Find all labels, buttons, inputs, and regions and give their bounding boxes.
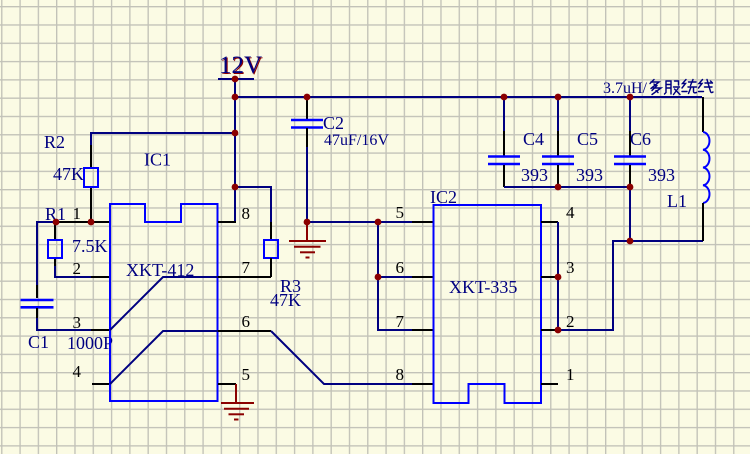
wire C1 to pin 3 [37, 318, 92, 330]
svg-text:2: 2 [73, 259, 82, 278]
wire R2 branch horizontal [91, 133, 235, 146]
op-amp IC1 chip outline XKT-412 [110, 204, 218, 401]
IC2 pin 1 stub [541, 383, 558, 385]
wire R1 bottom to pin 2 [55, 266, 92, 277]
12V label [219, 52, 263, 80]
char 绕 [682, 80, 687, 92]
capacitor C1 top lead [36, 285, 38, 298]
svg-text:393: 393 [576, 165, 603, 185]
svg-text:6: 6 [242, 312, 251, 331]
resistor R1 leads [54, 222, 56, 268]
wire IC2 right tie (4-3-2) [557, 222, 559, 330]
svg-text:47K: 47K [53, 164, 84, 184]
IC2 pin 4 stub [541, 221, 558, 223]
capacitor C6 [614, 157, 646, 165]
wire pin6 tie [378, 276, 413, 278]
wire 12V drop to bus [234, 79, 236, 222]
wire cap bottom rail [504, 186, 630, 188]
svg-text:47uF/16V: 47uF/16V [324, 132, 389, 149]
wire diag pin4 to pin6 row [110, 331, 218, 384]
wire ground node to IC2 pin5 [307, 221, 413, 223]
resistor R1 [48, 240, 62, 258]
IC2 pin 2 stub [541, 329, 558, 331]
ground under IC1 pin5 [221, 384, 254, 420]
svg-text:12V: 12V [219, 52, 262, 79]
IC2 pin 8 stub [412, 383, 434, 385]
inductor L1 top lead [702, 97, 704, 132]
capacitor C4 [488, 157, 520, 165]
svg-text:5: 5 [396, 203, 405, 222]
resistor R3 top lead [270, 222, 272, 240]
svg-text:C6: C6 [630, 129, 651, 149]
svg-text:IC2: IC2 [430, 187, 457, 207]
svg-text:C5: C5 [577, 129, 598, 149]
capacitor C2 [291, 120, 323, 128]
capacitor C1 [21, 300, 54, 307]
svg-text:C1: C1 [28, 332, 49, 352]
pin 3 stub [91, 329, 110, 331]
wire diag pin6 to IC2 pin8 [271, 331, 413, 384]
svg-text:47K: 47K [270, 290, 301, 310]
IC2 pin 6 stub [412, 276, 434, 278]
pin 4 stub [92, 383, 110, 385]
resistor R2 leads [90, 145, 92, 222]
svg-text:2: 2 [566, 312, 575, 331]
wire pin2 to L1 bottom [558, 241, 703, 330]
ground under C2 [289, 224, 326, 258]
inductor L1 [703, 132, 709, 203]
resistor R3 [264, 240, 278, 258]
capacitor C5 lead top [557, 97, 559, 132]
svg-text:1: 1 [73, 204, 82, 223]
capacitor C2 top lead [306, 97, 308, 119]
svg-text:8: 8 [396, 365, 405, 384]
IC2 chip outline XKT-335 [434, 205, 542, 403]
pin 8 stub (IC1) [218, 221, 236, 223]
capacitor C6 lead top [629, 97, 631, 132]
svg-text:3.7uH/: 3.7uH/ [603, 80, 648, 97]
wire R3 branch [235, 187, 271, 223]
svg-text:C2: C2 [323, 113, 344, 133]
wire pin1 row [37, 221, 56, 223]
wire diag pin3 to pin7 row [110, 277, 218, 330]
svg-text:XKT-335: XKT-335 [449, 277, 517, 297]
wire rail to pin2 net [629, 187, 631, 241]
char 多 [650, 80, 659, 89]
capacitor C5 [542, 157, 574, 165]
svg-text:R2: R2 [44, 132, 65, 152]
svg-text:L1: L1 [667, 191, 687, 211]
capacitor C1 bottom lead [36, 308, 38, 319]
pin 6 stub [218, 330, 271, 332]
wire C2 to ground node [306, 147, 308, 222]
inductor L1 bottom lead [702, 203, 704, 241]
wire C1 top column [36, 221, 38, 286]
wire IC2 left pins tie (5-6-7) [378, 222, 413, 330]
svg-text:4: 4 [566, 203, 575, 222]
svg-text:1: 1 [566, 365, 575, 384]
svg-text:7.5K: 7.5K [72, 236, 108, 256]
capacitor C4 lead top [503, 97, 505, 132]
resistor R2 [84, 168, 98, 187]
svg-text:3: 3 [566, 258, 575, 277]
svg-text:1000P: 1000P [67, 333, 113, 353]
svg-text:7: 7 [242, 258, 251, 277]
svg-text:6: 6 [396, 258, 405, 277]
IC2 pin 7 stub [412, 329, 434, 331]
svg-text:IC1: IC1 [144, 150, 171, 170]
svg-text:393: 393 [648, 165, 675, 185]
IC2 pin 3 stub [541, 276, 558, 278]
capacitor C2 bottom lead [306, 128, 308, 148]
svg-text:5: 5 [242, 365, 251, 384]
capacitor C6 bottom lead [629, 165, 631, 187]
power port 12V bar [218, 78, 254, 80]
char 线 [699, 80, 704, 92]
capacitor C5 bottom lead [557, 165, 559, 187]
IC2 pin 5 stub [412, 221, 434, 223]
pin 2 stub [91, 276, 110, 278]
char 股 [665, 81, 672, 94]
label 多股绕线 (hand-drawn strokes) [650, 80, 713, 95]
svg-text:393: 393 [521, 165, 548, 185]
resistor R3 bottom lead [270, 258, 272, 277]
wire main top bus [235, 96, 702, 98]
svg-text:C4: C4 [523, 129, 544, 149]
svg-text:7: 7 [396, 312, 405, 331]
pin 7 stub [218, 276, 271, 278]
svg-text:3: 3 [73, 313, 82, 332]
svg-text:8: 8 [242, 204, 251, 223]
capacitor C4 bottom lead [503, 165, 505, 187]
svg-text:4: 4 [73, 362, 82, 381]
pin 5 stub (IC1) [218, 383, 236, 385]
wire pin1 row black segment / pin 1 stub [55, 221, 110, 223]
